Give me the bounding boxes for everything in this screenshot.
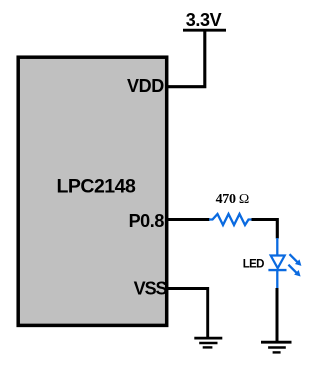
LED emission arrow 1: [290, 254, 302, 266]
svg-text:3.3V: 3.3V: [186, 10, 222, 30]
wire cathode (blue): [276, 271, 278, 288]
svg-text:LPC2148: LPC2148: [56, 176, 136, 198]
wire LED to ground (black): [276, 288, 279, 341]
svg-text:LED: LED: [243, 259, 264, 271]
svg-text:VDD: VDD: [127, 76, 164, 96]
wire anode (blue) into LED: [276, 238, 278, 255]
svg-text:P0.8: P0.8: [129, 211, 165, 231]
IC U1 LPC2148 body: [18, 57, 167, 325]
ground symbol (VSS): [194, 338, 222, 347]
svg-text:VSS: VSS: [134, 279, 168, 299]
supply 3.3V bar: [183, 29, 226, 32]
svg-text:470 Ω: 470 Ω: [216, 192, 249, 207]
LED emission arrow 2: [288, 265, 300, 277]
LED D1 cathode bar: [268, 269, 286, 271]
wire resistor to LED corner: [252, 220, 278, 239]
wire VDD pin to 3.3V: [166, 30, 205, 87]
resistor R1 470 ohm zigzag: [209, 214, 252, 225]
wire P0.8 pin to resistor: [166, 218, 210, 221]
wire VSS pin to ground: [166, 289, 208, 338]
LED D1 triangle: [271, 256, 285, 269]
ground symbol (LED): [261, 342, 292, 352]
